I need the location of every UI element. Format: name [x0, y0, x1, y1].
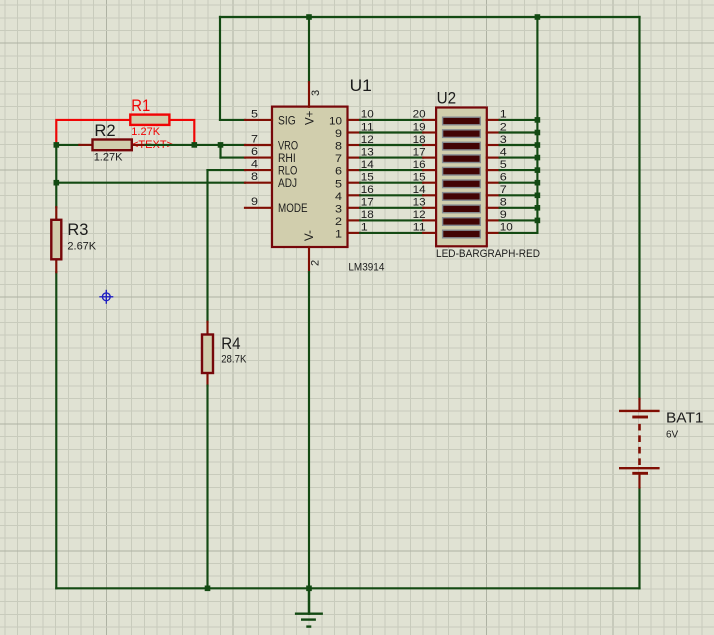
- svg-text:12: 12: [413, 209, 426, 221]
- U2 right pin 9: [487, 209, 507, 221]
- junction cathode bus row 2: [535, 130, 541, 136]
- U2 left pin 20: [413, 109, 436, 121]
- svg-text:1: 1: [335, 229, 342, 241]
- wire top rail right corner down to BAT1 +: [638, 17, 640, 399]
- wire top power rail: [220, 16, 640, 18]
- U2 right pin 4: [487, 146, 507, 158]
- wire U1 pin 13 to U2 pin 17: [360, 157, 423, 159]
- U2 right pin 1: [487, 109, 507, 121]
- junction cathode bus row 5: [535, 167, 541, 173]
- svg-text:2: 2: [310, 260, 322, 266]
- svg-text:6V: 6V: [666, 430, 679, 441]
- U1 right pin 11 (internal 9): [335, 121, 374, 140]
- wire U1 pin 14 to U2 pin 16: [360, 169, 423, 171]
- U1 pin 4 (RLO): [245, 159, 297, 178]
- U2 left pin 16: [413, 159, 436, 171]
- svg-text:6: 6: [251, 146, 258, 158]
- junction VRO net / RHI branch: [218, 142, 224, 148]
- wire RHI branch: [221, 145, 246, 158]
- junction left rail / ADJ branch: [54, 180, 60, 186]
- wire U1 pin 12 to U2 pin 18: [360, 144, 423, 146]
- U2 left pin 12: [413, 209, 436, 221]
- U2 left pin 15: [413, 172, 436, 184]
- U1 right pin 13 (internal 7): [335, 146, 374, 165]
- U1 pin 5 (SIG): [245, 108, 296, 127]
- svg-text:V+: V+: [304, 110, 316, 125]
- U1 right pin 17 (internal 3): [335, 197, 374, 216]
- svg-text:9: 9: [335, 128, 342, 140]
- U1 pin 2 (V-) bottom: [304, 230, 321, 272]
- svg-text:8: 8: [335, 141, 342, 153]
- op-amp driver IC U1 LM3914 body: [272, 107, 348, 247]
- wire left drop from top rail to U1 SIG pin: [220, 17, 245, 120]
- svg-text:MODE: MODE: [278, 203, 308, 215]
- U2 left pin 18: [413, 134, 436, 146]
- U1 right pin 12 (internal 8): [335, 134, 374, 153]
- wire VRO net left segment to R2: [56, 144, 79, 146]
- svg-text:17: 17: [413, 146, 426, 158]
- svg-text:LM3914: LM3914: [348, 262, 384, 274]
- wire RLO net: [208, 170, 246, 322]
- wire left rail upper (R2 node down to R3): [55, 145, 57, 207]
- wire left rail lower (R3 to bottom rail): [55, 272, 57, 588]
- svg-text:R2: R2: [94, 121, 115, 140]
- U1 pin 6 (RHI): [245, 146, 296, 165]
- wire U1 pin 1 to U2 pin 11: [360, 232, 423, 234]
- svg-text:RLO: RLO: [278, 166, 297, 178]
- junction top rail / U2 cathode bus: [535, 14, 541, 20]
- junction R1 right lead / VRO net: [192, 142, 198, 148]
- U2 left pin 17: [413, 146, 436, 158]
- U1 pin 3 (V+) top: [304, 82, 322, 125]
- svg-text:VRO: VRO: [278, 140, 298, 152]
- svg-text:3: 3: [335, 203, 342, 215]
- wire bottom ground rail: [56, 587, 639, 589]
- junction cathode bus row 6: [535, 180, 541, 186]
- wire R4 bottom lead to bottom rail: [206, 386, 208, 589]
- wire U1 pin 17 to U2 pin 13: [360, 207, 423, 209]
- resistor R2: [79, 140, 145, 151]
- wire top rail down to U1 V+ pin: [308, 17, 310, 82]
- U2 right pin 3: [487, 134, 507, 146]
- junction bottom rail / R4 column: [205, 586, 211, 592]
- svg-text:V-: V-: [304, 230, 316, 241]
- U1 pin 9 (MODE): [245, 196, 308, 215]
- U1 pin 7 (VRO): [245, 133, 298, 152]
- U1 right pin 16 (internal 4): [335, 184, 374, 203]
- U2 right pin 7: [487, 184, 507, 196]
- svg-text:7: 7: [335, 153, 342, 165]
- wire U1 pin 10 to U2 pin 20: [360, 119, 423, 121]
- svg-text:16: 16: [413, 159, 426, 171]
- U2 right pin 5: [487, 159, 507, 171]
- junction bottom rail / ground: [306, 586, 312, 592]
- svg-text:18: 18: [413, 134, 426, 146]
- svg-text:7: 7: [251, 133, 258, 145]
- svg-text:U1: U1: [350, 76, 372, 95]
- junction cathode bus row 9: [535, 218, 541, 224]
- U1 right pin 1 (internal 1): [335, 222, 368, 241]
- junction cathode bus row 1: [535, 117, 541, 123]
- svg-text:LED-BARGRAPH-RED: LED-BARGRAPH-RED: [436, 248, 540, 260]
- svg-text:11: 11: [413, 222, 426, 234]
- svg-text:R3: R3: [67, 220, 88, 239]
- wire U1 pin 15 to U2 pin 15: [360, 182, 423, 184]
- svg-text:2: 2: [335, 216, 342, 228]
- svg-text:5: 5: [335, 178, 342, 190]
- svg-text:BAT1: BAT1: [666, 410, 704, 427]
- junction cathode bus row 7: [535, 193, 541, 199]
- svg-text:6: 6: [335, 166, 342, 178]
- U1 right pin 18 (internal 2): [335, 209, 374, 228]
- junction cathode bus row 3: [535, 142, 541, 148]
- svg-text:R4: R4: [221, 334, 240, 353]
- wire U2 pin 2 to cathode bus: [500, 131, 538, 133]
- resistor R3: [51, 207, 61, 272]
- svg-text:13: 13: [413, 197, 426, 209]
- U2 LED segments: [443, 117, 481, 238]
- svg-text:15: 15: [413, 172, 426, 184]
- junction cathode bus row 4: [535, 155, 541, 161]
- wire R1 left lead (selected, red): [56, 120, 130, 144]
- wire U1 V- pin down to bottom rail: [308, 272, 310, 588]
- wire U1 pin 16 to U2 pin 14: [360, 194, 423, 196]
- U2 left pin 19: [413, 121, 436, 133]
- battery BAT1: [619, 399, 660, 488]
- wire U2 pin 5 to cathode bus: [500, 169, 538, 171]
- svg-text:SIG: SIG: [278, 115, 296, 127]
- wire U2 pin 1 to cathode bus: [500, 119, 538, 121]
- LED bargraph U2 body: [436, 108, 487, 247]
- svg-text:9: 9: [251, 196, 258, 208]
- U2 left pin 13: [413, 197, 436, 209]
- wire U2 pin 9 to cathode bus: [500, 219, 538, 221]
- wire U2 pin 6 to cathode bus: [500, 182, 538, 184]
- U2 left pin 14: [413, 184, 436, 196]
- ground symbol: [295, 588, 323, 626]
- wire U2 cathode bus vertical: [536, 17, 538, 233]
- svg-text:20: 20: [413, 109, 426, 121]
- svg-text:4: 4: [335, 191, 342, 203]
- svg-text:4: 4: [251, 159, 258, 171]
- svg-text:28.7K: 28.7K: [221, 354, 247, 366]
- svg-text:R1: R1: [131, 96, 150, 115]
- svg-text:1.27K: 1.27K: [131, 126, 160, 138]
- U2 right pin 6: [487, 172, 507, 184]
- wire U2 pin 4 to cathode bus: [500, 157, 538, 159]
- svg-text:3: 3: [310, 90, 322, 96]
- svg-text:14: 14: [413, 184, 426, 196]
- wire R1 right lead (selected, red): [169, 120, 194, 144]
- wire U2 pin 10 to cathode bus: [500, 232, 538, 234]
- wire BAT1 - down to bottom rail: [638, 488, 640, 588]
- wire U2 pin 8 to cathode bus: [500, 207, 538, 209]
- svg-text:2.67K: 2.67K: [67, 241, 96, 253]
- svg-text:1.27K: 1.27K: [94, 152, 123, 164]
- resistor R4: [202, 322, 213, 386]
- svg-text:10: 10: [329, 116, 342, 128]
- U1 pin 8 (ADJ): [245, 171, 297, 190]
- U1 right pin 10 (internal 10): [329, 109, 374, 128]
- U2 left pin 11: [413, 222, 436, 234]
- svg-text:8: 8: [251, 171, 258, 183]
- U2 right pin 10: [487, 222, 513, 234]
- wire U2 pin 7 to cathode bus: [500, 194, 538, 196]
- resistor R1 (selected): [130, 115, 169, 125]
- wire ADJ net: [56, 182, 245, 184]
- wire U1 pin 11 to U2 pin 19: [360, 131, 423, 133]
- U1 right pin 15 (internal 5): [335, 172, 374, 191]
- U1 right pin 14 (internal 6): [335, 159, 374, 178]
- svg-text:RHI: RHI: [278, 153, 296, 165]
- svg-text:U2: U2: [437, 88, 457, 107]
- U2 right pin 2: [487, 121, 507, 133]
- svg-text:ADJ: ADJ: [278, 178, 297, 190]
- wire U2 pin 3 to cathode bus: [500, 144, 538, 146]
- svg-text:5: 5: [251, 108, 258, 120]
- svg-text:19: 19: [413, 121, 426, 133]
- junction cathode bus row 8: [535, 205, 541, 211]
- wire U1 pin 18 to U2 pin 12: [360, 219, 423, 221]
- junction left rail / R2 / R1 node: [54, 142, 60, 148]
- origin marker: [99, 290, 113, 304]
- wire VRO net right segment to U1: [146, 144, 245, 146]
- junction top rail / U1 V+ column: [306, 14, 312, 20]
- U2 right pin 8: [487, 197, 507, 209]
